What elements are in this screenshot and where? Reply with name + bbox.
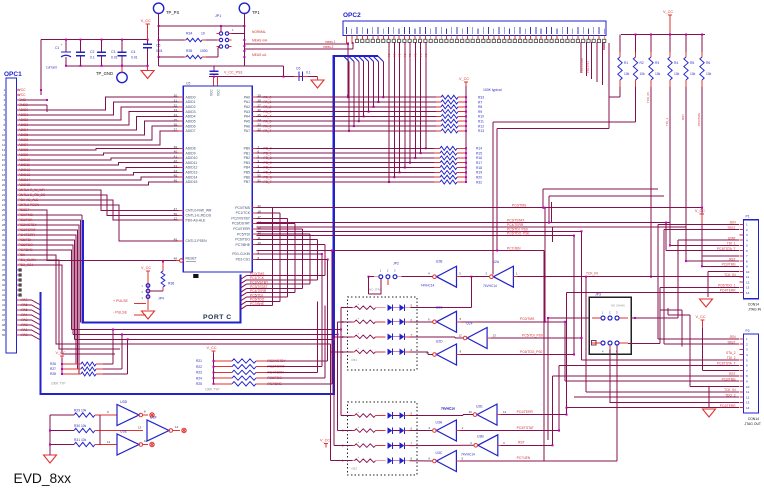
svg-text:R19: R19 [476,171,482,175]
svg-text:50: 50 [2,333,6,337]
svg-text:24: 24 [2,203,6,207]
svg-text:CON14: CON14 [748,303,759,307]
svg-text:OPC1: OPC1 [4,71,22,78]
svg-text:R21: R21 [196,359,202,363]
svg-text:12: 12 [459,333,463,337]
svg-text:0.01: 0.01 [131,56,138,60]
svg-text:C3: C3 [111,50,115,54]
svg-text:12: 12 [746,280,750,284]
svg-text:28: 28 [2,223,6,227]
svg-text:RESET: RESET [186,256,197,260]
svg-text:PA5: PA5 [244,120,250,124]
svg-text:PC5/TDI: PC5/TDI [237,232,250,236]
svg-text:STA_2: STA_2 [726,351,736,355]
svg-text:1000: 1000 [200,49,208,53]
svg-text:33: 33 [2,248,6,252]
svg-text:43: 43 [2,298,6,302]
svg-text:12: 12 [746,395,750,399]
svg-text:ADID0: ADID0 [186,95,196,99]
svg-text:R29 10k: R29 10k [74,409,87,413]
svg-text:EVD_8xx: EVD_8xx [14,471,72,486]
svg-text:- PULSE: - PULSE [113,311,128,315]
svg-text:JTAG OUT: JTAG OUT [744,422,761,426]
svg-text:ADID12: ADID12 [186,166,198,170]
svg-text:R10: R10 [478,115,484,119]
svg-text:11: 11 [107,440,110,444]
svg-text:PB4: PB4 [244,166,251,170]
svg-text:32: 32 [2,243,6,247]
svg-text:10: 10 [144,439,148,443]
svg-text:V_CC_PS3: V_CC_PS3 [224,71,242,75]
svg-text:PC6/TDO: PC6/TDO [235,238,250,242]
svg-text:PD2-CS1: PD2-CS1 [586,61,590,73]
svg-text:12: 12 [175,425,179,429]
svg-text:R12: R12 [478,124,484,128]
svg-text:0.1: 0.1 [306,71,311,75]
svg-text:VCC: VCC [19,93,27,97]
svg-text:U3C: U3C [436,451,443,455]
svg-text:+ PULSE: + PULSE [113,299,128,303]
svg-text:ADID14: ADID14 [186,175,198,179]
svg-text:ADID7: ADID7 [186,129,196,133]
svg-text:CNTL1-E,RD,DS: CNTL1-E,RD,DS [186,214,212,218]
svg-text:49: 49 [2,328,6,332]
svg-text:U2A: U2A [493,260,500,264]
svg-text:PD1-CLKIN: PD1-CLKIN [232,252,250,256]
svg-text:P1: P1 [746,215,750,219]
svg-text:12: 12 [2,143,6,147]
svg-text:D62: D62 [352,467,358,471]
svg-text:ADID1: ADID1 [186,100,196,104]
svg-text:PC4/TERR: PC4/TERR [517,410,534,414]
svg-text:R22: R22 [196,365,202,369]
svg-text:V_CC: V_CC [695,209,705,213]
svg-text:PC5/TDI_PS0: PC5/TDI_PS0 [522,334,543,338]
svg-text:PA3: PA3 [244,110,250,114]
svg-text:U3F: U3F [150,416,158,420]
svg-text:ADID3: ADID3 [186,110,196,114]
svg-text:R31 10k: R31 10k [74,438,87,442]
svg-text:U2E: U2E [476,405,483,409]
svg-text:R16: R16 [476,156,482,160]
svg-text:PC4/TERR: PC4/TERR [233,227,250,231]
svg-text:74VHC14: 74VHC14 [483,284,497,288]
svg-text:meas.2: meas.2 [323,45,334,49]
svg-text:10k: 10k [655,72,661,76]
svg-text:R34: R34 [186,32,192,36]
svg-text:PC7/BHE: PC7/BHE [250,302,265,306]
svg-text:MEAS uA: MEAS uA [252,53,267,57]
svg-text:48: 48 [2,323,6,327]
svg-text:PD2-CS1: PD2-CS1 [236,258,250,262]
svg-text:ADID2: ADID2 [186,105,196,109]
svg-text:PB5: PB5 [244,171,251,175]
svg-text:PC3/TSTAT: PC3/TSTAT [507,219,524,223]
svg-text:NO CHAIN: NO CHAIN [611,304,625,308]
svg-text:PB3: PB3 [244,161,251,165]
svg-text:36: 36 [2,263,6,267]
svg-text:PC2/VSTBY: PC2/VSTBY [231,217,250,221]
svg-text:PA1: PA1 [244,100,250,104]
svg-text:0.01: 0.01 [111,56,118,60]
svg-text:R11: R11 [478,120,484,124]
svg-text:TCK_IN: TCK_IN [646,92,650,103]
svg-text:R17: R17 [476,161,482,165]
svg-text:R3: R3 [655,61,659,65]
svg-text:C4: C4 [131,50,135,54]
svg-text:TP1: TP1 [252,10,260,15]
svg-text:10: 10 [746,270,750,274]
svg-text:V_CC: V_CC [141,19,151,23]
svg-text:V_CC: V_CC [141,266,151,270]
svg-text:35: 35 [2,258,6,262]
svg-text:34: 34 [2,253,6,257]
svg-text:ADID10: ADID10 [186,156,198,160]
svg-text:V_CC: V_CC [696,315,706,319]
svg-text:JTAG IN: JTAG IN [748,308,761,312]
svg-text:PB: PB [403,53,407,57]
svg-text:JP2: JP2 [393,262,399,266]
svg-text:VCC: VCC [217,89,221,96]
svg-text:CON14: CON14 [748,417,759,421]
svg-text:R1: R1 [624,61,628,65]
svg-text:U3B: U3B [477,435,484,439]
svg-text:V_CC: V_CC [207,346,217,350]
svg-text:TP_PS: TP_PS [166,10,179,15]
svg-text:26: 26 [2,213,6,217]
svg-text:38: 38 [2,273,6,277]
svg-text:PB0: PB0 [244,147,251,151]
svg-text:ADID9: ADID9 [186,151,196,155]
svg-text:meas.1: meas.1 [325,40,336,44]
svg-text:ADID4: ADID4 [186,115,196,119]
svg-text:C1: C1 [55,46,59,50]
svg-text:20: 20 [2,183,6,187]
svg-text:ADID8: ADID8 [186,147,196,151]
svg-text:R28: R28 [50,372,56,376]
svg-text:0.1: 0.1 [90,56,95,60]
svg-text:PC0/TMS: PC0/TMS [235,206,250,210]
svg-text:JP3: JP3 [595,293,601,297]
svg-text:0.01: 0.01 [156,49,163,53]
svg-text:13: 13 [2,148,6,152]
svg-text:10k: 10k [706,72,712,76]
svg-text:RST: RST [681,114,685,120]
svg-text:16: 16 [2,163,6,167]
svg-text:23: 23 [2,198,6,202]
svg-text:R8: R8 [478,105,482,109]
svg-text:U3D: U3D [120,400,128,404]
svg-text:PC7/BHE: PC7/BHE [235,243,250,247]
svg-text:47: 47 [2,318,6,322]
svg-text:PA4: PA4 [244,115,250,119]
svg-text:R20: R20 [476,176,482,180]
svg-text:C2: C2 [90,50,94,54]
svg-text:PD1-CLKIN: PD1-CLKIN [580,58,584,73]
svg-text:13: 13 [138,426,142,430]
svg-text:TCK_IN: TCK_IN [586,272,598,276]
svg-text:PB: PB [419,53,423,57]
svg-text:R27: R27 [50,367,56,371]
svg-text:10k: 10k [640,72,646,76]
svg-text:27: 27 [2,218,6,222]
svg-text:R13: R13 [478,129,484,133]
svg-text:TDI_1: TDI_1 [665,117,669,126]
svg-text:10: 10 [746,385,750,389]
svg-text:PA6: PA6 [244,124,250,128]
svg-text:R24: R24 [196,376,202,380]
svg-text:ADID11: ADID11 [186,161,198,165]
svg-text:U2F: U2F [466,322,472,326]
svg-text:14: 14 [2,153,6,157]
svg-text:10: 10 [469,410,473,414]
svg-text:PB: PB [408,53,412,57]
svg-text:74VHC14: 74VHC14 [441,407,455,411]
svg-text:29: 29 [2,228,6,232]
svg-text:PB: PB [392,53,396,57]
svg-text:OPC2: OPC2 [343,12,361,19]
svg-text:PC7/JEN: PC7/JEN [517,456,531,460]
svg-text:PC3/TSTAT: PC3/TSTAT [517,426,534,430]
svg-text:74VHC14: 74VHC14 [421,284,435,288]
svg-text:U2D: U2D [436,340,443,344]
svg-text:PB: PB [414,53,418,57]
svg-text:PB1: PB1 [244,151,251,155]
svg-text:D61: D61 [352,358,358,362]
svg-text:NORMAL: NORMAL [252,30,266,34]
svg-text:TP_GND: TP_GND [96,71,113,76]
svg-text:44: 44 [2,303,6,307]
svg-text:PD0-AS-ALE: PD0-AS-ALE [186,218,207,222]
svg-text:10: 10 [201,32,205,36]
svg-text:PC6/TDO_PS0: PC6/TDO_PS0 [520,350,543,354]
svg-text:10: 10 [2,133,6,137]
svg-text:R25: R25 [196,382,202,386]
svg-text:P2: P2 [746,329,750,333]
svg-text:JP1: JP1 [215,14,221,18]
svg-text:R18: R18 [476,166,482,170]
svg-text:11: 11 [2,138,5,142]
svg-text:MEAS mA: MEAS mA [252,39,268,43]
svg-text:NO JTAG: NO JTAG [369,288,382,292]
svg-text:100K TYP: 100K TYP [205,388,219,392]
svg-text:18: 18 [2,173,6,177]
svg-text:PC0/TMS: PC0/TMS [520,317,535,321]
svg-text:15: 15 [2,158,6,162]
svg-text:JP4: JP4 [158,297,164,301]
svg-text:10k: 10k [690,72,696,76]
svg-text:19: 19 [2,178,6,182]
svg-text:R9: R9 [478,110,482,114]
svg-text:31: 31 [2,238,6,242]
svg-text:R14: R14 [476,147,482,151]
svg-text:PB: PB [387,53,391,57]
svg-text:PA2: PA2 [244,105,250,109]
svg-text:TCK_IN: TCK_IN [724,273,736,277]
svg-text:R30 10k: R30 10k [74,424,87,428]
svg-text:PC0/TMS: PC0/TMS [697,113,701,126]
svg-text:11: 11 [746,390,749,394]
svg-text:14: 14 [746,406,750,410]
svg-text:R15: R15 [476,151,482,155]
svg-text:40: 40 [2,283,6,287]
svg-text:C6: C6 [296,67,300,71]
svg-text:U5: U5 [186,82,190,86]
svg-text:100K typical: 100K typical [483,88,502,92]
svg-text:21: 21 [2,188,6,192]
svg-text:10k: 10k [674,72,680,76]
svg-text:R36: R36 [168,282,174,286]
svg-text:PORT C: PORT C [203,314,232,321]
svg-text:PA7: PA7 [244,129,250,133]
svg-text:R33: R33 [478,96,484,100]
svg-text:V_CC: V_CC [459,77,469,81]
svg-text:PB7: PB7 [244,180,251,184]
svg-text:R26: R26 [50,362,56,366]
svg-text:U3A: U3A [436,421,443,425]
svg-text:37: 37 [2,268,6,272]
svg-text:PA0: PA0 [244,95,250,99]
svg-text:100K TYP: 100K TYP [51,382,65,386]
svg-text:13: 13 [746,401,750,405]
svg-text:R5: R5 [690,61,694,65]
svg-text:U2B: U2B [436,260,443,264]
svg-text:48: 48 [174,257,178,261]
svg-text:PC6/TDO_PS0: PC6/TDO_PS0 [507,232,530,236]
svg-text:ADID6: ADID6 [186,124,196,128]
svg-text:1uf tant: 1uf tant [46,66,57,70]
svg-text:V_CC: V_CC [320,439,330,443]
svg-text:VCC: VCC [210,89,214,96]
svg-text:45: 45 [2,308,6,312]
svg-text:RST: RST [518,441,525,445]
svg-text:R2: R2 [640,61,644,65]
svg-text:46: 46 [2,313,6,317]
svg-text:ADID5: ADID5 [186,120,196,124]
svg-text:R32: R32 [476,180,482,184]
svg-text:PB6: PB6 [244,175,251,179]
svg-text:10k: 10k [624,72,630,76]
svg-text:+: + [61,43,63,47]
svg-text:25: 25 [2,208,6,212]
svg-text:VCC: VCC [19,88,27,92]
svg-text:PB2: PB2 [244,156,251,160]
svg-text:R7: R7 [478,100,482,104]
svg-text:13: 13 [493,333,497,337]
svg-text:CNTL2-PSEN: CNTL2-PSEN [186,239,208,243]
svg-text:41: 41 [2,288,6,292]
svg-text:R4: R4 [674,61,678,65]
svg-text:39: 39 [2,278,6,282]
svg-text:CNTL0-R/W_WR: CNTL0-R/W_WR [186,209,213,213]
svg-text:11: 11 [503,410,506,414]
svg-text:R23: R23 [196,371,202,375]
svg-text:PC3/DSTAT: PC3/DSTAT [232,222,250,226]
svg-text:PC7/JEN: PC7/JEN [507,247,521,251]
svg-text:ADID15: ADID15 [186,180,198,184]
svg-text:U2C: U2C [436,306,443,310]
svg-text:R6: R6 [706,61,710,65]
svg-text:PC1/TCK: PC1/TCK [236,211,251,215]
svg-text:V_CC: V_CC [56,351,66,355]
svg-text:13: 13 [746,286,750,290]
svg-text:ADID13: ADID13 [186,171,198,175]
svg-text:30: 30 [2,233,6,237]
svg-text:11: 11 [746,275,749,279]
svg-text:42: 42 [2,293,6,297]
svg-text:R35: R35 [186,49,192,53]
svg-text:14: 14 [746,291,750,295]
svg-text:PB: PB [424,53,428,57]
svg-text:PC0/TMS: PC0/TMS [512,204,527,208]
svg-text:17: 17 [2,168,6,172]
svg-text:PB: PB [398,53,402,57]
svg-text:U3E: U3E [120,430,128,434]
svg-text:22: 22 [2,193,6,197]
svg-text:V_CC: V_CC [663,10,673,14]
